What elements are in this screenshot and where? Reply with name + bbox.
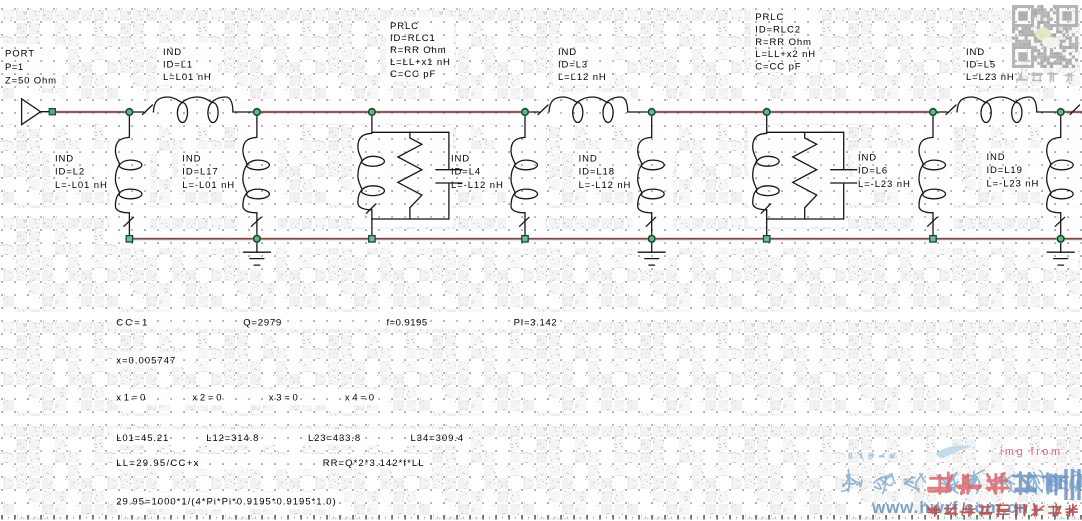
inductor L18 bbox=[638, 112, 665, 213]
svg-text:Q=2979: Q=2979 bbox=[243, 318, 282, 329]
svg-text:RR=Q*2*3.142*f*LL: RR=Q*2*3.142*f*LL bbox=[323, 458, 425, 469]
node B3 bbox=[1056, 234, 1066, 244]
terminal T3 bbox=[522, 236, 528, 242]
svg-text:L=L12 nH: L=L12 nH bbox=[558, 72, 607, 83]
svg-text:L34=309.4: L34=309.4 bbox=[411, 433, 465, 444]
svg-text:x1=0: x1=0 bbox=[116, 393, 146, 404]
wire: node H to right edge bbox=[1061, 110, 1082, 114]
svg-text:C=CC pF: C=CC pF bbox=[390, 69, 436, 80]
node B1 bbox=[252, 234, 262, 244]
node B2 bbox=[647, 234, 657, 244]
wire: port to node A bbox=[55, 110, 129, 114]
svg-text:R=RR Ohm: R=RR Ohm bbox=[390, 45, 447, 56]
svg-text:L=-L12 nH: L=-L12 nH bbox=[451, 180, 504, 191]
resonator RLC1 capacitor branch bbox=[448, 132, 450, 168]
svg-text:LL=29.95/CC+x: LL=29.95/CC+x bbox=[116, 458, 199, 469]
node M1 bbox=[124, 107, 134, 117]
port P1 terminal bbox=[49, 109, 55, 115]
watermark wechat text bbox=[1017, 72, 1028, 82]
svg-text:IND: IND bbox=[579, 153, 598, 164]
svg-text:CC=1: CC=1 bbox=[116, 318, 148, 329]
svg-text:ID=L4: ID=L4 bbox=[451, 167, 481, 178]
svg-text:L=LL+x1 nH: L=LL+x1 nH bbox=[390, 57, 451, 68]
svg-text:ID=L3: ID=L3 bbox=[558, 60, 588, 71]
svg-text:L=-L12 nH: L=-L12 nH bbox=[579, 180, 632, 191]
svg-text:ID=L17: ID=L17 bbox=[182, 167, 218, 178]
svg-text:L01=45.21: L01=45.21 bbox=[116, 433, 169, 444]
svg-text:PRLC: PRLC bbox=[390, 21, 419, 32]
svg-text:P=1: P=1 bbox=[5, 62, 24, 73]
resonator RLC2 inductor branch bbox=[753, 133, 780, 210]
svg-text:ID=RLC1: ID=RLC1 bbox=[390, 33, 436, 44]
wire: slash at right edge bbox=[1070, 105, 1080, 115]
wire: bottom ground bus bbox=[129, 237, 1082, 241]
inductor L4 bbox=[511, 112, 538, 213]
svg-text:IND: IND bbox=[451, 153, 470, 164]
watermark swoosh bbox=[936, 445, 972, 457]
terminal T4 bbox=[764, 236, 770, 242]
watermark QR code bbox=[1012, 5, 1078, 68]
resonator RLC2 resistor branch bbox=[793, 132, 817, 219]
resonator RLC1 inductor branch bbox=[358, 133, 385, 210]
resonator RLC2 body bbox=[766, 112, 768, 132]
svg-text:x2=0: x2=0 bbox=[192, 393, 222, 404]
svg-text:R=RR Ohm: R=RR Ohm bbox=[755, 37, 812, 48]
bottom edge ticks bbox=[1, 515, 2, 520]
svg-text:PRLC: PRLC bbox=[755, 12, 784, 23]
svg-text:IND: IND bbox=[966, 47, 985, 58]
svg-text:L=L23 nH: L=L23 nH bbox=[966, 72, 1015, 83]
svg-text:IND: IND bbox=[55, 153, 74, 164]
svg-text:IND: IND bbox=[163, 47, 182, 58]
svg-text:ID=L18: ID=L18 bbox=[579, 167, 615, 178]
svg-text:ID=L5: ID=L5 bbox=[966, 60, 996, 71]
svg-text:IND: IND bbox=[182, 153, 201, 164]
svg-text:f=0.9195: f=0.9195 bbox=[387, 318, 429, 329]
watermark tiny blue row bbox=[849, 453, 852, 459]
svg-text:Z=50 Ohm: Z=50 Ohm bbox=[5, 76, 57, 87]
node M3 bbox=[367, 107, 377, 117]
inductor L5 bbox=[933, 111, 947, 113]
inductor L19 bbox=[1047, 112, 1074, 213]
svg-text:L=-L23 nH: L=-L23 nH bbox=[858, 179, 911, 190]
terminal T5 bbox=[930, 236, 936, 242]
resonator RLC2 capacitor branch bbox=[843, 132, 845, 168]
svg-text:img from: img from bbox=[1000, 446, 1060, 458]
ground 3 bbox=[1060, 239, 1062, 252]
ground 2 bbox=[651, 239, 653, 252]
inductor L3 bbox=[525, 111, 539, 113]
svg-text:L=L01 nH: L=L01 nH bbox=[163, 72, 212, 83]
svg-text:ID=L19: ID=L19 bbox=[987, 165, 1023, 176]
wire: node E to node G bbox=[652, 110, 933, 114]
svg-text:29.95=1000*1/(4*Pi*Pi*0.9195*0: 29.95=1000*1/(4*Pi*Pi*0.9195*0.9195*1.0) bbox=[116, 497, 336, 508]
svg-text:L=-L01 nH: L=-L01 nH bbox=[55, 180, 108, 191]
svg-text:IND: IND bbox=[987, 152, 1006, 163]
svg-text:ID=L1: ID=L1 bbox=[163, 60, 193, 71]
svg-text:C=CC pF: C=CC pF bbox=[755, 62, 801, 73]
svg-text:L=LL+x2 nH: L=LL+x2 nH bbox=[755, 49, 816, 60]
watermark blue brand tail bbox=[1014, 472, 1036, 493]
inductor L6 bbox=[919, 112, 946, 213]
resonator RLC1 resistor branch bbox=[398, 132, 422, 219]
inductor L1 bbox=[129, 111, 143, 113]
node M6 bbox=[762, 107, 772, 117]
watermark blue script bbox=[842, 470, 863, 492]
svg-text:L=-L23 nH: L=-L23 nH bbox=[987, 179, 1040, 190]
wire: node B to node D bbox=[257, 110, 525, 114]
node M7 bbox=[928, 107, 938, 117]
svg-text:PI=3.142: PI=3.142 bbox=[514, 318, 558, 329]
svg-text:L12=314.8: L12=314.8 bbox=[206, 433, 259, 444]
svg-text:IND: IND bbox=[558, 47, 577, 58]
svg-text:ID=L2: ID=L2 bbox=[55, 167, 85, 178]
svg-text:L23=433.8: L23=433.8 bbox=[308, 433, 361, 444]
node M5 bbox=[647, 107, 657, 117]
ground 1 bbox=[256, 239, 258, 252]
svg-text:PORT: PORT bbox=[5, 49, 35, 60]
clean blocks bbox=[0, 101, 1082, 124]
svg-text:x4=0: x4=0 bbox=[345, 393, 375, 404]
svg-text:x=0.005747: x=0.005747 bbox=[116, 356, 176, 367]
terminal T2 bbox=[369, 236, 375, 242]
svg-text:IND: IND bbox=[858, 152, 877, 163]
node M2 bbox=[252, 107, 262, 117]
watermark red slogan bbox=[928, 506, 940, 516]
resonator RLC1 body bbox=[371, 112, 373, 132]
node M4 bbox=[520, 107, 530, 117]
svg-text:L=-L01 nH: L=-L01 nH bbox=[182, 180, 235, 191]
node M8 bbox=[1056, 107, 1066, 117]
inductor L2 bbox=[115, 112, 142, 213]
terminal T1 bbox=[126, 236, 132, 242]
svg-text:ID=RLC2: ID=RLC2 bbox=[755, 24, 801, 35]
svg-text:ID=L6: ID=L6 bbox=[858, 166, 888, 177]
svg-text:x3=0: x3=0 bbox=[269, 393, 299, 404]
inductor L17 bbox=[243, 112, 270, 213]
port P1 symbol bbox=[22, 99, 50, 125]
watermark red brand bbox=[929, 473, 952, 494]
